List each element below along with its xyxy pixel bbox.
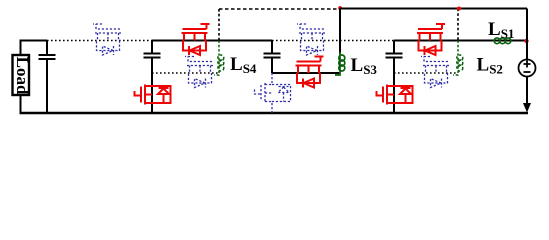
MOSFET Q1 (off, dashed blue, on top wire) xyxy=(93,24,121,55)
wire: top solid horizontal xyxy=(340,8,527,10)
svg-text:Load: Load xyxy=(13,57,32,95)
wire: dashed vertical to blue MOSFET below C3 xyxy=(271,73,273,113)
MOSFET Q3 (off, dashed blue, on middle wire) xyxy=(185,57,213,88)
wire: solid top wire segment C4 to right rail xyxy=(394,40,527,42)
capacitor C1 xyxy=(39,41,56,114)
MOSFET Q10 (off, dashed blue, on middle wire) xyxy=(421,57,449,88)
inductor L_S2 (dashed) xyxy=(453,41,463,76)
MOSFET Q9 (on, red, vertical at C4 column) xyxy=(377,85,413,105)
inductor L_S1 (solid green, horizontal on top wire) xyxy=(494,38,511,44)
wire: dotted top wire segment C1 to C2 xyxy=(47,40,152,42)
wire: dotted top wire segment C3 to C4 xyxy=(272,40,394,42)
wire: right rail upper xyxy=(526,9,528,60)
wire: right rail lower with arrow xyxy=(526,77,528,105)
inductor L_S3 (solid green) xyxy=(335,52,345,75)
node: red junction dot at L_S3 top xyxy=(338,6,342,10)
capacitor C4 xyxy=(386,41,403,114)
wire: dotted middle wire C2 to L_S4 xyxy=(152,72,219,74)
node: red junction dot right xyxy=(524,39,528,43)
capacitor C2 xyxy=(144,41,161,114)
wire: solid top wire segment C2 to C3 xyxy=(152,40,272,42)
MOSFET Q2 (on, red, on top wire) xyxy=(182,24,210,55)
node: red junction dot top xyxy=(457,7,461,11)
wire: dashed vertical at L_S4 column xyxy=(218,9,220,41)
wire: solid vertical at L_S3 column xyxy=(339,9,341,55)
inductor L_S4 (dashed) xyxy=(214,41,224,76)
capacitor C3 xyxy=(264,41,281,74)
MOSFET Q7 (off, dashed blue, vertical at C3 column) xyxy=(255,83,291,103)
wire: dotted middle wire C4 to L_S2 xyxy=(394,72,458,74)
MOSFET Q8 (on, red, on top wire) xyxy=(417,24,445,55)
wire: solid middle wire C3 to L_S3 xyxy=(272,72,340,74)
wire: top dashed horizontal xyxy=(219,8,340,10)
load xyxy=(13,55,33,95)
MOSFET Q4 (on, red, vertical at C2 column) xyxy=(135,85,171,105)
MOSFET Q6 (on, red, on middle wire) xyxy=(296,57,324,88)
wire: dashed vertical at L_S2 column xyxy=(457,9,459,41)
wire: load top lead and top-left wire xyxy=(21,41,48,56)
MOSFET Q5 (off, dashed blue, on top wire) xyxy=(297,24,325,55)
arrowhead xyxy=(523,103,531,113)
wire: load bottom lead xyxy=(20,95,22,113)
source V1 xyxy=(519,60,536,77)
wire: bottom rail xyxy=(20,112,529,114)
